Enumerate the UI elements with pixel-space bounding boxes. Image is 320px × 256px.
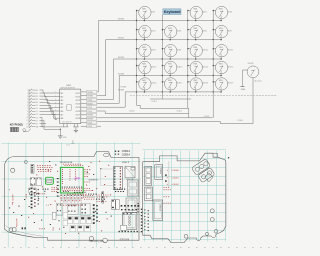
IC pin IN7 xyxy=(55,113,63,116)
net label box COL2 xyxy=(81,110,97,113)
UPP bottom pad rows xyxy=(62,187,82,192)
switch S5 key circle xyxy=(162,25,177,40)
red text cluster mid right xyxy=(83,195,95,200)
red silkscreen cluster top-left xyxy=(37,165,52,171)
svg-text:COL2: COL2 xyxy=(87,111,92,113)
thin dark strip mid xyxy=(102,192,104,203)
svg-text:R1: R1 xyxy=(36,93,38,95)
resistor array rows below UPP xyxy=(60,195,83,204)
svg-text:ROW3: ROW3 xyxy=(118,73,125,75)
svg-text:ROW2: ROW2 xyxy=(118,57,125,59)
svg-text:11: 11 xyxy=(26,120,28,122)
component K300 dark strip xyxy=(31,165,34,174)
svg-text:COL4: COL4 xyxy=(238,120,244,122)
svg-text:SW1: SW1 xyxy=(219,64,223,66)
svg-text:SW1: SW1 xyxy=(142,64,146,66)
IC pin IN8 xyxy=(55,117,63,120)
svg-text:SW-PB: SW-PB xyxy=(248,63,255,65)
svg-text:IDK7: IDK7 xyxy=(228,30,232,32)
svg-text:GND: GND xyxy=(241,89,246,91)
svg-text:8: 8 xyxy=(27,111,28,113)
wire COL4 long net xyxy=(97,122,253,124)
mounting hole top-left xyxy=(11,168,15,172)
switch S15 key circle xyxy=(213,61,228,76)
svg-text:SW1: SW1 xyxy=(168,64,172,66)
wire keypad net 6 xyxy=(40,105,58,111)
IC pin OUT2 xyxy=(75,96,80,98)
pad column left of UPP xyxy=(57,178,59,197)
wire keypad net 13 xyxy=(40,126,44,128)
svg-text:9: 9 xyxy=(27,114,28,116)
wire COL2 vertical bus xyxy=(187,11,189,109)
right board hole sq xyxy=(213,153,217,157)
wire keypad net 12 xyxy=(40,123,47,125)
faint perforation dotted line bottom xyxy=(4,246,278,249)
svg-text:OUT1: OUT1 xyxy=(75,93,80,95)
wire keypad net 3 xyxy=(40,96,58,100)
left board inner bottom trace xyxy=(4,225,43,237)
pad hole lower-mid xyxy=(89,236,94,241)
resistors left of B2401 xyxy=(30,178,41,186)
svg-text:+AC2 B0x: +AC2 B0x xyxy=(15,218,18,227)
wire ROW3 horizontal line xyxy=(119,75,222,77)
svg-text:4: 4 xyxy=(27,99,28,101)
connector pin 6 xyxy=(27,104,38,107)
svg-text:SW1: SW1 xyxy=(219,9,223,11)
IC pin OUT1 xyxy=(75,93,80,95)
svg-text:IDK1: IDK1 xyxy=(151,11,155,13)
wire COL0 vertical bus xyxy=(136,11,138,106)
switch S13 key circle xyxy=(162,61,177,76)
net label box ROW2 xyxy=(81,113,97,116)
switch S16 key circle xyxy=(136,78,151,93)
svg-text:OUT7: OUT7 xyxy=(75,114,80,116)
svg-text:IDK2: IDK2 xyxy=(203,11,207,13)
svg-text:C3: C3 xyxy=(36,114,38,116)
IC bottom GND stubs pair A xyxy=(58,124,68,140)
screw hole bottom xyxy=(103,238,108,243)
wire ROW1 horizontal line xyxy=(106,39,222,41)
connector pin 9 xyxy=(27,113,38,116)
diamond pad xyxy=(205,173,213,182)
svg-text:C1: C1 xyxy=(36,108,38,110)
bracket rotated with holes xyxy=(192,159,216,184)
svg-text:IDK17: IDK17 xyxy=(177,83,182,85)
svg-text:IDK12: IDK12 xyxy=(151,66,156,68)
svg-text:COL0: COL0 xyxy=(129,110,135,112)
svg-text:SW1: SW1 xyxy=(219,28,223,30)
right column components of left board xyxy=(125,166,138,212)
switch S8 key circle xyxy=(136,45,151,60)
wire ROW4 riser xyxy=(97,92,125,107)
red refs right board xyxy=(164,187,171,203)
svg-text:IN6: IN6 xyxy=(60,111,63,113)
svg-text:IDK14: IDK14 xyxy=(203,66,208,68)
net label box ROW4 xyxy=(81,91,97,94)
wire actuator column stub xyxy=(252,78,254,124)
switch S4 key circle xyxy=(136,25,151,40)
svg-text:+C6002: +C6002 xyxy=(171,184,180,186)
IC pin IN2 xyxy=(55,95,63,98)
svg-text:10: 10 xyxy=(26,117,28,119)
svg-text:SW1: SW1 xyxy=(193,64,197,66)
switch S12 key circle xyxy=(136,61,151,76)
svg-text:IDK8: IDK8 xyxy=(151,50,155,52)
svg-text:SW1: SW1 xyxy=(168,80,172,82)
small dark squares mid xyxy=(165,174,166,182)
net label box COL1 xyxy=(81,106,97,109)
IC pin OUT5 xyxy=(75,107,80,109)
small comp right of connector xyxy=(124,167,135,170)
net label box ROW3 xyxy=(81,117,97,120)
svg-text:1.6:1: 1.6:1 xyxy=(66,145,70,147)
svg-text:7: 7 xyxy=(27,108,28,110)
red+dark silk rows y195-202 upper xyxy=(61,192,109,206)
wire COL3 vertical bus xyxy=(212,11,214,118)
connector pin 1 xyxy=(27,89,38,92)
red cluster below UPP left xyxy=(52,187,59,192)
svg-text:SCKER B: SCKER B xyxy=(89,180,99,182)
IC pin OUT4 xyxy=(75,104,80,106)
wire ROW0 riser xyxy=(97,21,99,92)
svg-text:IDK16: IDK16 xyxy=(151,83,156,85)
svg-text:SW1: SW1 xyxy=(219,80,223,82)
svg-text:IDK9: IDK9 xyxy=(177,50,181,52)
IC pin OUT8 xyxy=(75,118,80,120)
connector pin 12 xyxy=(26,122,37,125)
left edge red vertical texts xyxy=(9,189,27,228)
svg-text:1: 1 xyxy=(27,90,28,92)
scribble mark xyxy=(23,129,31,132)
section line right board xyxy=(168,161,170,188)
wire ROW2 riser xyxy=(97,59,114,100)
svg-text:IDK19: IDK19 xyxy=(228,83,233,85)
svg-text:COL2: COL2 xyxy=(177,110,183,112)
connector pin 5 xyxy=(27,101,38,104)
wire col net jog xyxy=(97,111,189,114)
right board outline xyxy=(143,153,226,242)
svg-text:ROW0: ROW0 xyxy=(87,96,92,98)
switch S18 key circle xyxy=(187,78,202,93)
svg-text:COL1: COL1 xyxy=(87,107,92,109)
connector X300 spine xyxy=(28,89,30,128)
lower component grid rows xyxy=(68,217,92,232)
vertical comp strip C65013 xyxy=(153,200,163,220)
svg-text:SW1: SW1 xyxy=(193,80,197,82)
svg-text:UPP: UPP xyxy=(74,177,80,181)
white rect below IC xyxy=(120,225,126,230)
switch S10 key circle xyxy=(187,45,202,60)
svg-text:1 1: 1 1 xyxy=(46,205,49,207)
svg-text:13: 13 xyxy=(26,126,28,128)
junction gnd riser xyxy=(60,129,61,130)
lower-left dense pads right board xyxy=(141,209,149,233)
svg-text:Keyboard: Keyboard xyxy=(164,10,181,14)
switch S17 key circle xyxy=(162,78,177,93)
right board holes xyxy=(184,209,218,238)
IC pin OUT7 xyxy=(75,114,80,116)
connector pin 10 xyxy=(26,116,38,119)
svg-text:IDK4: IDK4 xyxy=(151,30,155,32)
svg-text:SW1: SW1 xyxy=(193,9,197,11)
scattered red speckles xyxy=(28,161,111,234)
capacitor refs +C rows xyxy=(167,169,180,186)
svg-text:COL4: COL4 xyxy=(87,126,92,128)
wire keypad net 5 xyxy=(40,102,58,107)
dimension marks above board xyxy=(66,140,75,146)
svg-text:IDK18: IDK18 xyxy=(203,83,208,85)
IC pin OUT3 xyxy=(75,100,80,102)
svg-text:COL3: COL3 xyxy=(204,116,210,118)
net label box COL3 xyxy=(81,121,97,124)
switch S1 key circle xyxy=(136,6,151,21)
svg-text:5: 5 xyxy=(27,102,28,104)
svg-text:COL3: COL3 xyxy=(87,122,92,124)
svg-text:IN1: IN1 xyxy=(60,93,63,95)
svg-text:SW1: SW1 xyxy=(219,47,223,49)
net label box COL4 xyxy=(81,125,97,128)
svg-text:SW1: SW1 xyxy=(193,47,197,49)
extra rects mid-left column xyxy=(46,205,67,226)
red labels right of UPP xyxy=(84,169,113,191)
net label box ROW0 xyxy=(81,94,97,97)
svg-text:ROW4: ROW4 xyxy=(87,92,92,94)
svg-text:6: 6 xyxy=(27,105,28,107)
svg-text:C65013: C65013 xyxy=(159,204,161,212)
svg-text:IDK13: IDK13 xyxy=(177,66,182,68)
svg-text:IN3: IN3 xyxy=(60,100,63,102)
dimension microtext above UPP xyxy=(60,162,73,164)
right board bottom pad arc 1 xyxy=(197,238,201,241)
wire COL1 vertical bus xyxy=(161,15,163,99)
dark pad column mid-right xyxy=(93,204,98,224)
svg-text:IDK3: IDK3 xyxy=(228,11,232,13)
svg-text:C05013: C05013 xyxy=(122,151,131,153)
switch S6 key circle xyxy=(187,25,202,40)
ground GND xyxy=(241,86,246,91)
svg-text:SW1: SW1 xyxy=(142,47,146,49)
wire keypad net 7 xyxy=(40,108,58,114)
svg-text:OUT2: OUT2 xyxy=(75,96,80,98)
red silkscreen rows above UPP xyxy=(63,164,83,166)
svg-text:12: 12 xyxy=(26,123,28,125)
switch S2 key circle xyxy=(187,6,202,21)
svg-text:+B2C01 Bxx: +B2C01 Bxx xyxy=(11,194,13,205)
svg-text:KEYPAD(S): KEYPAD(S) xyxy=(10,124,23,127)
op IC N301 keypad interface xyxy=(60,85,81,123)
switch S14 key circle xyxy=(187,61,202,76)
svg-text:V1: V1 xyxy=(36,120,38,122)
wire microtext net list row xyxy=(130,94,276,96)
svg-text:3: 3 xyxy=(27,96,28,98)
right board bottom pad arc 2 xyxy=(211,233,220,238)
net label box ROW1 xyxy=(81,102,97,105)
wire col net 5 stub xyxy=(97,125,101,127)
wire ROW2 horizontal line xyxy=(114,58,222,60)
svg-text:E30.L9: E30.L9 xyxy=(122,162,130,164)
switch S7 key circle xyxy=(213,25,228,40)
svg-text:IDK6: IDK6 xyxy=(203,30,207,32)
IC pin IN5 xyxy=(55,106,63,109)
IC pin IN3 xyxy=(55,99,63,102)
svg-text:ROW4: ROW4 xyxy=(118,90,125,92)
wire keypad net 4 xyxy=(40,99,58,104)
svg-text:OUT6: OUT6 xyxy=(75,111,80,113)
switch S11 key circle xyxy=(213,45,228,60)
mid-bottom component cluster rows xyxy=(56,203,90,215)
dark pad stack left xyxy=(31,184,39,208)
connector pin 4 xyxy=(27,98,38,101)
bottom-left edge component xyxy=(9,227,54,231)
svg-text:R3: R3 xyxy=(36,99,38,101)
svg-text:IDK10: IDK10 xyxy=(203,50,208,52)
svg-text:OUT4: OUT4 xyxy=(75,104,80,106)
svg-text:IN7: IN7 xyxy=(60,114,63,116)
svg-text:SW1: SW1 xyxy=(193,28,197,30)
svg-text:+C6000: +C6000 xyxy=(171,170,180,172)
wire keypad net 11 xyxy=(40,121,61,130)
connector pin 11 xyxy=(26,119,37,122)
IC pin IN1 xyxy=(55,92,63,95)
twin tall rects x112 y200 xyxy=(112,200,120,210)
svg-text:COL1: COL1 xyxy=(152,101,158,103)
wire ROW4 horizontal line xyxy=(125,91,222,93)
svg-text:2: 2 xyxy=(27,93,28,95)
svg-text:0201.8 B: 0201.8 B xyxy=(120,240,130,242)
svg-text:CMP03S MQFP28: CMP03S MQFP28 xyxy=(60,88,75,90)
left board outline xyxy=(4,152,139,241)
svg-text:IN5: IN5 xyxy=(60,107,63,109)
IC D2500 UPP green highlight box xyxy=(60,167,83,193)
bottom right pad row xyxy=(119,203,139,232)
title Keyboard (highlighted) xyxy=(163,9,181,15)
svg-text:ROW3: ROW3 xyxy=(87,119,92,121)
svg-text:OUT8: OUT8 xyxy=(75,118,80,120)
switch S19 key circle xyxy=(213,78,228,93)
wire keypad net 2 xyxy=(40,93,58,97)
IC pin IN4 xyxy=(55,103,63,106)
wire ROW0 horizontal line xyxy=(98,20,221,22)
svg-text:C6500: C6500 xyxy=(159,168,161,175)
upper mid components row (y~199-210) left xyxy=(52,212,56,219)
stamp barcode block xyxy=(10,127,19,132)
wire keypad net 9 xyxy=(40,114,58,119)
small green box B2401 xyxy=(45,177,53,184)
svg-text:R2C0: R2C0 xyxy=(25,194,27,199)
wire COL3 long net xyxy=(97,117,213,119)
svg-text:ROW2: ROW2 xyxy=(87,115,92,117)
IC pin IN6 xyxy=(55,110,63,113)
svg-text:R0: R0 xyxy=(36,90,38,92)
switch S3 key circle xyxy=(213,6,228,21)
connector pin 2 xyxy=(27,92,38,95)
svg-text:ROW4: ROW4 xyxy=(121,87,127,89)
big IC bottom right of left board xyxy=(122,213,137,230)
right board connector blocks left column xyxy=(145,166,153,200)
svg-text:Actuator: Actuator xyxy=(255,80,262,83)
connector pin 3 xyxy=(27,95,38,98)
switch S20 actuator key xyxy=(247,63,262,83)
connector pin 13 xyxy=(26,125,39,128)
svg-text:OUT3: OUT3 xyxy=(75,100,80,102)
right board tall comp C6500 xyxy=(155,165,163,180)
left board grid xyxy=(2,143,141,248)
svg-text:C05014: C05014 xyxy=(122,155,131,157)
svg-text:SW1: SW1 xyxy=(142,9,146,11)
svg-text:C0: C0 xyxy=(36,105,38,107)
small hole top edge xyxy=(24,161,27,164)
net label box COL0 xyxy=(81,98,97,101)
svg-text:C2: C2 xyxy=(36,111,38,113)
pads below connector xyxy=(114,189,125,192)
svg-text:SW1: SW1 xyxy=(168,47,172,49)
svg-text:ROW1: ROW1 xyxy=(118,37,125,39)
svg-text:V2: V2 xyxy=(36,123,38,125)
wire actuator to ground xyxy=(243,70,248,86)
pads row right y205 xyxy=(121,205,140,210)
svg-text:R4: R4 xyxy=(36,102,38,104)
svg-text:SW1: SW1 xyxy=(142,80,146,82)
wire ROW3 riser xyxy=(97,76,119,104)
svg-text:IDK5: IDK5 xyxy=(177,30,181,32)
svg-text:IDK11: IDK11 xyxy=(228,50,233,52)
svg-text:ROW1: ROW1 xyxy=(87,103,92,105)
right board grid xyxy=(143,149,226,241)
wire COL2 step xyxy=(137,105,189,118)
svg-text:988.8818 8B: 988.8818 8B xyxy=(60,162,73,164)
wire COL1 step xyxy=(150,98,191,100)
connector X2500 right strip xyxy=(113,166,122,189)
junction dots xyxy=(136,20,214,93)
svg-text:SW1: SW1 xyxy=(142,28,146,30)
svg-text:COL0: COL0 xyxy=(87,99,92,101)
svg-text:+C6001: +C6001 xyxy=(171,178,180,180)
svg-text:IN2: IN2 xyxy=(60,96,63,98)
wire keypad net 8 xyxy=(40,111,58,118)
svg-text:IN8: IN8 xyxy=(60,118,63,120)
label block C05013 top-right of left board xyxy=(115,151,131,164)
svg-text:OSC GND VT: OSC GND VT xyxy=(62,121,72,123)
dark speckles xyxy=(9,161,112,228)
svg-text:IN4: IN4 xyxy=(60,104,63,106)
svg-text:TZKB 0201_0018: TZKB 0201_0018 xyxy=(89,241,106,243)
connector pin 7 xyxy=(27,107,38,110)
svg-text:C4: C4 xyxy=(36,117,38,119)
svg-text:ROW0: ROW0 xyxy=(118,18,125,20)
svg-text:R2: R2 xyxy=(36,96,38,98)
svg-text:IDK15: IDK15 xyxy=(228,66,233,68)
components below B2401 xyxy=(29,188,49,194)
oval hole top tab xyxy=(104,153,110,157)
svg-text:SW1: SW1 xyxy=(168,28,172,30)
IC bottom GND stubs pair B xyxy=(73,124,79,133)
connector pin 8 xyxy=(27,110,38,113)
svg-text:OUT5: OUT5 xyxy=(75,107,80,109)
IC pin OUT6 xyxy=(75,111,80,113)
wire keypad net 1 xyxy=(40,90,58,93)
right board corner mark xyxy=(228,157,229,158)
UPP inner pin columns xyxy=(62,169,76,184)
switch S9 key circle xyxy=(162,45,177,60)
wire ROW1 riser xyxy=(97,40,106,96)
wire keypad net 10 xyxy=(40,117,63,126)
